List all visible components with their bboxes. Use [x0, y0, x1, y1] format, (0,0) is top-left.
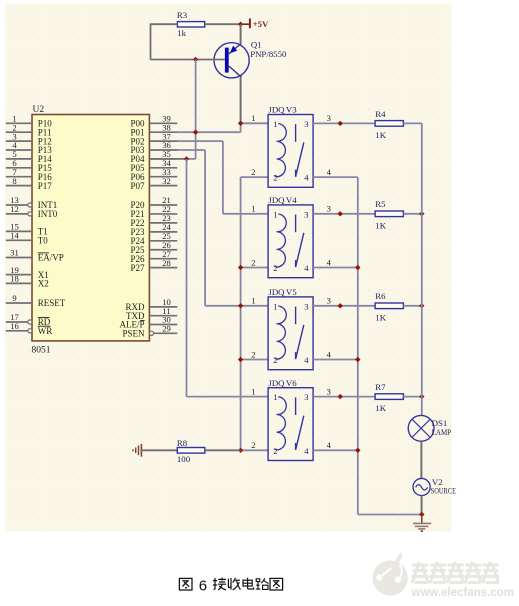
pin 3 label relay V4 — [327, 204, 331, 214]
svg-text:1K: 1K — [375, 130, 386, 140]
pin 2 label relay V3 — [251, 167, 255, 177]
svg-text:JDQ: JDQ — [268, 287, 285, 297]
ac source V2 SOURCE — [413, 477, 456, 496]
svg-text:1: 1 — [251, 386, 255, 396]
pin 25 P24 — [130, 231, 177, 246]
node +5V junction — [238, 22, 243, 27]
svg-text:4: 4 — [304, 263, 309, 273]
svg-text:P17: P17 — [38, 181, 53, 191]
svg-text:100: 100 — [177, 454, 191, 464]
svg-text:LAMP: LAMP — [432, 427, 452, 437]
pin 4 P13 — [6, 140, 53, 155]
wire relay pin-2 common chain — [241, 177, 269, 450]
node P01 crossing junction — [193, 130, 198, 135]
wire P03 feed down to V5 pin 1 — [177, 150, 268, 306]
svg-text:1K: 1K — [375, 403, 386, 413]
svg-text:4: 4 — [304, 446, 309, 456]
pin 4 label relay V4 — [327, 257, 332, 267]
pin 7 P16 — [6, 167, 53, 182]
pin 26 P25 — [130, 240, 177, 255]
pin 3 wire relay V6 — [313, 396, 375, 398]
resistor R5 1K — [375, 199, 403, 230]
pin 19 X1 — [6, 265, 49, 280]
svg-text:INT0: INT0 — [38, 209, 58, 219]
lamp DS1 LAMP — [408, 415, 451, 441]
svg-text:4: 4 — [327, 440, 332, 450]
resistor R4 1K — [375, 109, 403, 140]
wire ground to R8 — [141, 449, 177, 451]
pin 9 RESET — [6, 293, 66, 308]
pin 36 P03 — [130, 140, 177, 155]
pin 2 label relay V5 — [251, 349, 255, 359]
pin 4 wire relay V3 — [313, 176, 358, 178]
resistor R8 100 — [177, 438, 205, 464]
pin 15 T1 — [6, 222, 48, 237]
pin 3 label relay V6 — [327, 386, 331, 396]
wire R6 to right bus — [403, 305, 421, 307]
wire R3 left to base loop — [151, 23, 196, 59]
svg-text:2: 2 — [251, 167, 255, 177]
pin 4 wire relay V4 — [313, 267, 358, 269]
pin 34 P05 — [130, 158, 177, 173]
node V3 pin1 junction — [238, 121, 243, 126]
pin 30 ALE/P — [119, 315, 177, 330]
pin 28 P27 — [130, 258, 177, 273]
svg-text:JDQ: JDQ — [268, 195, 285, 205]
svg-text:R7: R7 — [375, 382, 386, 392]
svg-text:U2: U2 — [33, 105, 45, 115]
svg-text:PSEN: PSEN — [122, 329, 145, 339]
wire emitter to +5V — [240, 24, 242, 43]
svg-text:R3: R3 — [177, 10, 188, 20]
svg-text:3: 3 — [327, 386, 331, 396]
node V5 pin4 junction — [355, 357, 360, 362]
svg-text:2: 2 — [251, 257, 255, 267]
node bus dot R5 — [419, 211, 424, 216]
svg-text:X2: X2 — [38, 279, 49, 289]
svg-text:PNP/8550: PNP/8550 — [250, 49, 287, 59]
svg-text:R8: R8 — [177, 438, 188, 448]
svg-text:2: 2 — [251, 349, 255, 359]
svg-text:SOURCE: SOURCE — [431, 486, 457, 496]
svg-text:1: 1 — [273, 392, 277, 402]
relay U5 JDQ V5 — [268, 287, 313, 370]
pin 13 INT1 — [6, 195, 58, 210]
power +5V symbol — [241, 19, 269, 30]
node pin3 dot relay V3 — [338, 121, 343, 126]
svg-text:EA/VP: EA/VP — [38, 253, 64, 263]
wire V3 pin 1 — [241, 122, 269, 124]
svg-text:www.elecfans.com: www.elecfans.com — [411, 587, 514, 599]
wire R4 to right bus — [403, 122, 421, 124]
microcontroller U2 8051 — [32, 115, 149, 341]
svg-text:1: 1 — [251, 296, 255, 306]
node V4 pin2 junction — [238, 265, 243, 270]
pin 39 P00 — [130, 114, 177, 129]
svg-text:4: 4 — [327, 257, 332, 267]
pin 37 P02 — [130, 131, 177, 146]
pin 2 label relay V4 — [251, 257, 255, 267]
svg-text:8051: 8051 — [32, 346, 51, 356]
pin 16 WR — [6, 321, 53, 336]
pin 29 PSEN — [122, 324, 177, 339]
pin 14 T0 — [6, 231, 48, 246]
svg-text:16: 16 — [10, 321, 19, 331]
svg-text:3: 3 — [327, 296, 331, 306]
svg-text:1: 1 — [273, 119, 277, 129]
pin 35 P04 — [130, 149, 177, 164]
svg-text:3: 3 — [304, 301, 308, 311]
wire R3 right to +5V node — [205, 23, 241, 25]
caption: 图 6 接收电路图 — [179, 578, 282, 595]
svg-text:8: 8 — [12, 176, 16, 186]
svg-text:14: 14 — [10, 231, 19, 241]
wire lamp to source — [420, 441, 422, 478]
wire R5 to right bus — [403, 213, 421, 215]
pin 1 label relay V3 — [251, 113, 255, 123]
pin 12 INT0 — [6, 204, 58, 219]
node bus dot R7 — [419, 394, 424, 399]
svg-text:3: 3 — [304, 209, 308, 219]
pin 2 P11 — [6, 122, 52, 137]
svg-text:6: 6 — [199, 578, 207, 595]
pin 3 label relay V5 — [327, 296, 331, 306]
svg-text:2: 2 — [273, 173, 277, 183]
node V5 pin2 junction — [238, 357, 243, 362]
pin 3 wire relay V4 — [313, 213, 375, 215]
svg-text:V4: V4 — [286, 195, 297, 205]
svg-text:1K: 1K — [375, 220, 386, 230]
schematic sheet background with dot grid — [5, 4, 452, 532]
pin 27 P26 — [130, 249, 177, 264]
svg-text:3: 3 — [327, 113, 331, 123]
ground left of R8 — [133, 444, 141, 457]
svg-text:1k: 1k — [177, 28, 186, 38]
svg-text:T0: T0 — [38, 236, 48, 246]
svg-text:18: 18 — [10, 274, 19, 284]
svg-text:4: 4 — [304, 173, 309, 183]
node V6 pin2 / R8 junction — [238, 448, 243, 453]
svg-text:R4: R4 — [375, 109, 386, 119]
wire P01 to base line and V3 pin 1 — [177, 123, 241, 132]
node bus dot R6 — [419, 303, 424, 308]
pin 11 TXD — [126, 306, 177, 321]
pin 33 P06 — [130, 167, 177, 182]
resistor R7 1K — [375, 382, 403, 413]
svg-text:4: 4 — [304, 355, 309, 365]
svg-text:4: 4 — [327, 349, 332, 359]
svg-text:1: 1 — [251, 204, 255, 214]
pin 4 wire relay V5 — [313, 359, 358, 361]
wire R8 to V6 pin2 — [205, 449, 241, 451]
pin 4 label relay V6 — [327, 440, 332, 450]
pin 4 label relay V3 — [327, 167, 332, 177]
node base junction — [193, 57, 198, 62]
pin 4 label relay V5 — [327, 349, 332, 359]
svg-text:2: 2 — [251, 440, 255, 450]
svg-text:1: 1 — [273, 209, 277, 219]
wire source to ground node — [421, 496, 423, 515]
pin 1 label relay V5 — [251, 296, 255, 306]
svg-text:JDQ: JDQ — [268, 105, 285, 115]
node V6 pin4 junction — [355, 448, 360, 453]
wire R7 to right bus — [403, 396, 421, 398]
wire base vertical from Q1 base to P04 row — [187, 60, 196, 159]
watermark logo (decorative) — [373, 552, 408, 595]
svg-text:+5V: +5V — [253, 19, 269, 29]
wire P04 feed down to V6 pin 1 — [187, 159, 269, 397]
pin 38 P01 — [130, 122, 177, 137]
svg-text:V3: V3 — [286, 105, 297, 115]
svg-text:31: 31 — [10, 248, 19, 258]
watermark brand text (decorative) — [413, 563, 499, 583]
svg-text:JDQ: JDQ — [268, 378, 285, 388]
pin 8 P17 — [6, 176, 53, 191]
pin 3 P12 — [6, 131, 52, 146]
svg-text:P27: P27 — [130, 263, 145, 273]
node pin3 dot relay V6 — [338, 394, 343, 399]
wire pin-4 common bus to ground node — [358, 177, 422, 514]
pin 4 wire relay V6 — [313, 449, 358, 451]
svg-text:9: 9 — [12, 293, 16, 303]
pin 5 P14 — [6, 149, 53, 164]
pin 32 P07 — [130, 176, 177, 191]
pin 10 RXD — [125, 297, 177, 312]
svg-text:1: 1 — [273, 301, 277, 311]
node ground junction — [419, 512, 424, 517]
svg-text:R5: R5 — [375, 199, 386, 209]
svg-text:12: 12 — [10, 204, 19, 214]
svg-text:32: 32 — [162, 176, 171, 186]
pin 21 P20 — [130, 195, 177, 210]
transistor Q1 PNP/8550 — [214, 40, 287, 78]
relay U4 JDQ V4 — [268, 195, 313, 278]
pin 17 RD — [6, 312, 51, 327]
svg-text:V6: V6 — [286, 378, 297, 388]
svg-text:2: 2 — [273, 355, 277, 365]
pin 1 label relay V6 — [251, 386, 255, 396]
pin 6 P15 — [6, 158, 53, 173]
svg-text:29: 29 — [162, 324, 171, 334]
pin 23 P22 — [130, 213, 177, 228]
pin 2 label relay V6 — [251, 440, 255, 450]
svg-text:2: 2 — [273, 446, 277, 456]
svg-text:WR: WR — [38, 326, 53, 336]
pin 31 EA/VP — [6, 248, 64, 263]
svg-text:V5: V5 — [286, 287, 297, 297]
node V5 pin1 crossing junction — [238, 303, 243, 308]
pin 3 wire relay V3 — [313, 122, 375, 124]
svg-text:P07: P07 — [130, 181, 145, 191]
svg-text:1: 1 — [251, 113, 255, 123]
wire right bus R4 output down to lamp — [421, 123, 423, 415]
resistor R6 1K — [375, 291, 403, 322]
svg-text:3: 3 — [304, 119, 308, 129]
pin 24 P23 — [130, 222, 177, 237]
svg-text:28: 28 — [162, 258, 171, 268]
node pin3 dot relay V4 — [338, 211, 343, 216]
svg-text:1K: 1K — [375, 312, 386, 322]
pin 22 P21 — [130, 204, 177, 219]
ground bottom earth symbol — [413, 515, 431, 532]
wire P02 feed down to V4 pin 1 — [177, 141, 268, 214]
wire base — [196, 59, 225, 61]
node V4 pin4 junction — [355, 265, 360, 270]
node pin3 dot relay V5 — [338, 303, 343, 308]
svg-text:R6: R6 — [375, 291, 386, 301]
pin 18 X2 — [6, 274, 49, 289]
pin 3 wire relay V5 — [313, 305, 375, 307]
wire P04 stub to feed — [149, 158, 186, 160]
wire collector down to relay V3 pin1 — [240, 77, 242, 123]
svg-text:3: 3 — [327, 204, 331, 214]
pin 1 P10 — [6, 114, 53, 129]
pin 1 label relay V4 — [251, 204, 255, 214]
pin 3 label relay V3 — [327, 113, 331, 123]
relay U6 JDQ V6 — [268, 378, 313, 461]
resistor R3 — [177, 10, 205, 38]
svg-text:3: 3 — [304, 392, 308, 402]
node P04 junction — [184, 156, 189, 161]
relay U3 JDQ V3 — [268, 105, 313, 188]
svg-text:RESET: RESET — [38, 298, 66, 308]
svg-text:4: 4 — [327, 167, 332, 177]
svg-text:2: 2 — [273, 263, 277, 273]
